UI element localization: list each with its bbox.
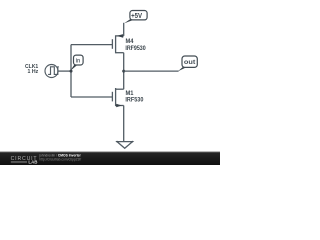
footer bar [0, 151, 220, 153]
M4 source arrow (points toward channel) [117, 34, 124, 38]
svg-text:M4: M4 [126, 39, 135, 45]
ground bar end dots [116, 141, 118, 143]
svg-text:http://circuitlab.com/c6pp23f/: http://circuitlab.com/c6pp23f/ [39, 158, 81, 162]
power flag +5V [124, 11, 147, 24]
wire M4 source to +5V flag [123, 23, 125, 36]
wire bus to M1 gate [71, 96, 112, 98]
transistor M1 IRF530 (NMOS) [112, 88, 123, 106]
wire M4 drain to output junction to M1 drain [123, 53, 125, 89]
ground [117, 142, 133, 149]
wire output junction to out flag [124, 70, 179, 72]
svg-text:out: out [184, 59, 196, 66]
svg-text:IRF9530: IRF9530 [125, 46, 146, 52]
svg-text:M1: M1 [126, 91, 135, 97]
svg-text:LAB: LAB [28, 160, 38, 165]
net flag out [178, 56, 198, 71]
net flag in [70, 55, 83, 71]
svg-text:in: in [76, 59, 81, 65]
junction node out [122, 70, 125, 73]
M1 source arrow (points away from channel) [116, 104, 122, 108]
wire input gate bus (vertical) [70, 45, 72, 97]
junction node in [70, 70, 73, 73]
wire bus to M4 gate [71, 44, 112, 46]
footer CircuitLab logo [11, 156, 39, 165]
transistor M4 IRF9530 (PMOS) [112, 35, 123, 53]
svg-text:+5V: +5V [131, 13, 142, 20]
svg-text:1 Hz: 1 Hz [28, 69, 39, 75]
wire CLK1 output to input junction [58, 70, 71, 72]
voltage source CLK1 (square-wave clock) [45, 65, 59, 78]
wire M1 source to ground [123, 106, 125, 142]
svg-text:IRF530: IRF530 [125, 98, 144, 104]
